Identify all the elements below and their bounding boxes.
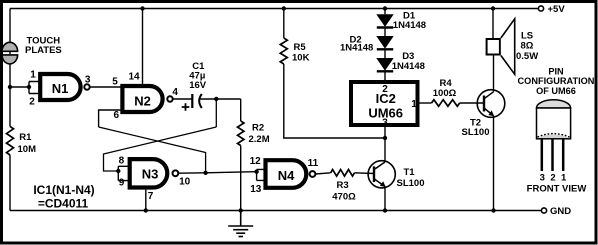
svg-text:0.5W: 0.5W: [516, 51, 538, 62]
node dot rail/D1: [383, 6, 387, 10]
node dot on left rail: [8, 85, 12, 89]
wire N3 out to N4 in: [178, 172, 256, 174]
wire R2 top: [240, 99, 242, 121]
svg-text:OF UM66: OF UM66: [536, 86, 576, 96]
svg-text:8: 8: [119, 156, 125, 167]
wire below R1: [9, 155, 11, 211]
svg-text:4: 4: [172, 87, 178, 98]
node A dot after C1: [214, 97, 218, 101]
node dot at N1 inputs: [27, 85, 31, 89]
NAND gate N2: [122, 86, 162, 112]
N2 output bubble: [167, 96, 172, 101]
touch plates: [2, 42, 18, 64]
wire node A down: [215, 99, 217, 127]
T2 emitter wire: [493, 116, 495, 211]
svg-text:5: 5: [112, 76, 118, 87]
GND rail: [10, 210, 542, 212]
svg-text:13: 13: [250, 184, 262, 195]
node dot feedback/N3 out: [203, 171, 207, 175]
resistor R2: [238, 121, 244, 146]
svg-text:9: 9: [119, 177, 125, 188]
cross wire node to N3 inputs: [104, 127, 217, 171]
+5V terminal: [538, 6, 543, 11]
wire R4 to T2 base: [460, 102, 484, 104]
svg-text:1: 1: [561, 173, 567, 184]
capacitor C1: [182, 94, 202, 111]
wire N1 out to N2 in: [90, 86, 123, 88]
svg-text:14: 14: [128, 72, 140, 83]
resistor R5: [283, 9, 285, 39]
svg-text:470Ω: 470Ω: [332, 192, 356, 203]
node dot at N3 inputs: [116, 169, 120, 173]
ground: [228, 211, 253, 237]
GND terminal: [541, 208, 546, 213]
N3 output bubble: [173, 170, 179, 176]
svg-text:R2: R2: [252, 123, 264, 134]
UM66 package front view: [537, 100, 571, 171]
T1 collector wire: [384, 127, 386, 162]
node dot rail/LS: [491, 6, 495, 10]
N3 ground pin 7 wire: [145, 190, 147, 211]
wire C1 to R2: [200, 98, 240, 100]
svg-text:R1: R1: [19, 132, 32, 143]
svg-text:12: 12: [250, 156, 262, 167]
resistor R3: [331, 170, 355, 177]
N4 output bubble: [310, 171, 316, 177]
T1 emitter wire: [384, 187, 386, 211]
node dot rail/R5: [282, 6, 286, 10]
svg-text:11: 11: [308, 158, 319, 169]
N1 output bubble: [84, 84, 89, 89]
svg-text:1N4148: 1N4148: [340, 42, 373, 53]
svg-text:7: 7: [148, 191, 154, 202]
IC2 UM66 melody IC: [351, 82, 418, 125]
node dot T1 emitter/GND: [383, 208, 387, 212]
svg-text:N4: N4: [278, 168, 295, 183]
node dot pin7/GND: [144, 208, 148, 212]
svg-text:N3: N3: [142, 167, 159, 182]
svg-text:T1: T1: [404, 167, 416, 178]
wire R5 to collector node: [284, 64, 385, 138]
diode D2: [376, 28, 393, 50]
svg-text:+5V: +5V: [548, 4, 566, 15]
svg-text:GND: GND: [550, 206, 571, 217]
svg-text:16V: 16V: [189, 80, 207, 91]
svg-text:2: 2: [382, 84, 388, 95]
wire to N1 inputs: [10, 86, 29, 88]
wire R3 to T1 base: [355, 172, 375, 175]
svg-text:100Ω: 100Ω: [433, 88, 457, 99]
svg-text:R5: R5: [294, 42, 307, 53]
svg-text:SL100: SL100: [462, 127, 490, 138]
svg-text:PLATES: PLATES: [25, 45, 62, 56]
node dot rail/pin14: [140, 6, 144, 10]
svg-text:2: 2: [550, 173, 555, 184]
svg-text:CONFIGURATION: CONFIGURATION: [518, 76, 595, 86]
node dot at N4 inputs: [254, 170, 258, 174]
svg-text:N1: N1: [52, 81, 69, 96]
svg-text:2.2M: 2.2M: [249, 134, 270, 145]
diode D3: [376, 49, 393, 80]
svg-text:2: 2: [29, 96, 35, 107]
loudspeaker LS: [487, 9, 515, 75]
svg-text:N2: N2: [134, 93, 151, 108]
svg-text:1: 1: [30, 69, 36, 80]
svg-text:=CD4011: =CD4011: [38, 197, 89, 211]
svg-text:PIN: PIN: [548, 66, 564, 76]
transistor T1: [368, 161, 395, 188]
left rail wire: [9, 9, 11, 127]
N1 input tie bar: [29, 82, 40, 94]
resistor R1: [7, 126, 14, 155]
svg-text:1N4148: 1N4148: [393, 20, 426, 31]
NAND gate N4: [266, 160, 307, 188]
svg-text:3: 3: [540, 173, 545, 184]
transistor T2: [477, 90, 505, 118]
svg-text:1: 1: [411, 99, 417, 110]
svg-text:10: 10: [179, 177, 191, 188]
N3 input tie bar: [118, 166, 129, 180]
N2 pin6 feedback wire: [99, 110, 123, 127]
N4 input tie bar: [257, 169, 266, 180]
svg-text:10M: 10M: [18, 144, 37, 155]
NAND gate N3: [130, 159, 168, 187]
svg-text:FRONT VIEW: FRONT VIEW: [527, 183, 587, 194]
cross wire N2.6 to N3.10: [99, 127, 206, 173]
svg-text:6: 6: [114, 110, 120, 121]
svg-text:SL100: SL100: [397, 178, 425, 189]
resistor R4: [432, 100, 460, 107]
svg-text:R3: R3: [337, 180, 349, 191]
NAND gate N1: [40, 74, 80, 100]
svg-text:10K: 10K: [292, 52, 310, 63]
+5V rail: [10, 8, 539, 10]
T2 collector wire: [493, 56, 495, 92]
svg-text:LS: LS: [521, 30, 533, 41]
IC2 pin 1 wire: [420, 102, 432, 104]
N2 power pin 14 wire: [142, 9, 144, 84]
node dot T2 emitter/GND: [491, 208, 495, 212]
svg-text:IC1(N1-N4): IC1(N1-N4): [33, 183, 94, 197]
wire N4 out to R3: [315, 173, 330, 174]
svg-text:3: 3: [382, 117, 388, 128]
diode D1: [376, 9, 393, 28]
node dot R2/GND: [239, 208, 243, 212]
svg-text:1N4148: 1N4148: [392, 61, 425, 72]
wire R2 bottom to GND rail: [240, 146, 242, 211]
node dot collector/R5: [383, 136, 387, 140]
wire N2 out to C1: [173, 98, 193, 100]
